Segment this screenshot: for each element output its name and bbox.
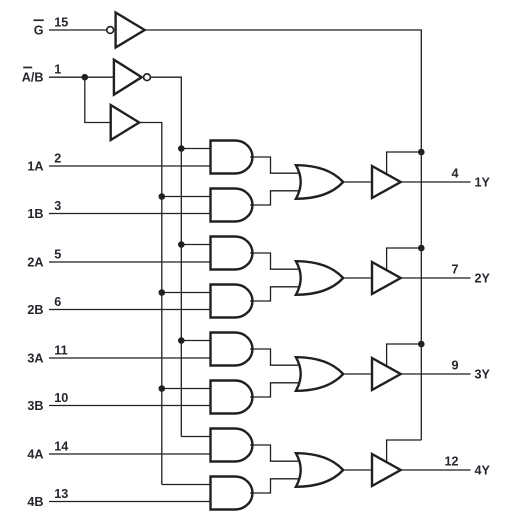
- inverter U1 (G enable, input bubble): [116, 13, 145, 48]
- overline for G: [34, 19, 44, 21]
- wire output 4Y: [401, 469, 471, 471]
- svg-text:14: 14: [54, 439, 68, 453]
- OR gate O1: [296, 165, 343, 199]
- svg-text:1A: 1A: [27, 160, 43, 174]
- AND gate A8 (4B path): [211, 477, 253, 510]
- svg-text:4A: 4A: [27, 448, 43, 462]
- wire AND1 output to OR1: [250, 157, 302, 173]
- svg-text:4B: 4B: [27, 495, 43, 509]
- junction enable bus group 1: [418, 149, 425, 156]
- svg-text:1: 1: [54, 63, 61, 77]
- overline for A: [23, 67, 32, 69]
- wire A/B input: [49, 76, 114, 78]
- wire input 4A: [49, 453, 213, 455]
- junction enable bus group 2: [418, 245, 425, 252]
- wire input 2A: [49, 261, 213, 263]
- svg-text:1B: 1B: [27, 207, 43, 221]
- svg-text:1Y: 1Y: [475, 176, 491, 190]
- wire G input: [49, 29, 106, 31]
- AND gate A6 (3B path): [211, 381, 253, 414]
- AND gate A2 (1B path): [211, 189, 253, 222]
- wire input 3B: [49, 405, 213, 407]
- wire buffered-select stub to AND8: [162, 484, 213, 486]
- wire input 3A: [49, 357, 213, 359]
- svg-text:4Y: 4Y: [475, 464, 491, 478]
- wire AND2 output to OR1: [250, 191, 302, 205]
- wire enable stub group 1: [387, 152, 422, 174]
- wire enable stub group 4: [387, 440, 422, 462]
- wire G inverter output to bus: [145, 30, 422, 440]
- svg-text:5: 5: [54, 247, 61, 261]
- wire output 3Y: [401, 373, 471, 375]
- wire inverted select vertical: [151, 77, 182, 436]
- wire input 1B: [49, 213, 213, 215]
- wire OR4 output to buffer Y4: [343, 469, 372, 471]
- wire AND7 output to OR4: [250, 445, 302, 461]
- OR gate O4: [296, 453, 343, 487]
- buffer Y2 (output): [372, 262, 401, 294]
- wire enable stub group 2: [387, 248, 422, 270]
- svg-text:3A: 3A: [27, 352, 43, 366]
- OR gate O2: [296, 261, 343, 295]
- svg-text:3: 3: [54, 199, 61, 213]
- junction inverted-select group 1: [178, 145, 185, 152]
- wire inverted-select stub to AND3: [181, 244, 212, 246]
- wire inverted-select stub to AND7: [181, 436, 212, 438]
- wire OR1 output to buffer Y1: [343, 181, 372, 183]
- svg-text:3Y: 3Y: [475, 368, 491, 382]
- svg-text:15: 15: [54, 15, 68, 29]
- buffer Y3 (output): [372, 358, 401, 390]
- svg-text:7: 7: [451, 262, 458, 276]
- wire input 2B: [49, 309, 213, 311]
- junction buffered-select group 3: [159, 385, 166, 392]
- inverter U2 (select, output bubble): [114, 60, 142, 95]
- junction enable bus group 3: [418, 341, 425, 348]
- wire buffered-select stub to AND6: [162, 388, 213, 390]
- svg-text:2B: 2B: [27, 303, 43, 317]
- wire A/B to buffer U3: [85, 77, 111, 122]
- AND gate A7 (4A path): [211, 429, 253, 462]
- buffer Y4 (output): [372, 454, 401, 486]
- junction buffered-select group 2: [159, 289, 166, 296]
- wire OR3 output to buffer Y3: [343, 373, 372, 375]
- svg-text:3B: 3B: [27, 399, 43, 413]
- wire OR2 output to buffer Y2: [343, 277, 372, 279]
- wire AND6 output to OR3: [250, 383, 302, 397]
- svg-text:4: 4: [451, 166, 458, 180]
- svg-text:A/B: A/B: [22, 71, 44, 85]
- AND gate A5 (3A path): [211, 333, 253, 366]
- wire buffered-select stub to AND2: [162, 196, 213, 198]
- wire output 2Y: [401, 277, 471, 279]
- svg-text:10: 10: [54, 391, 68, 405]
- svg-text:2A: 2A: [27, 256, 43, 270]
- wire AND4 output to OR2: [250, 287, 302, 301]
- junction buffered-select group 1: [159, 193, 166, 200]
- svg-text:9: 9: [451, 358, 458, 372]
- svg-text:6: 6: [54, 295, 61, 309]
- junction inverted-select group 2: [178, 241, 185, 248]
- wire output 1Y: [401, 181, 471, 183]
- buffer Y1 (output): [372, 166, 401, 198]
- AND gate A4 (2B path): [211, 285, 253, 318]
- wire buffered select vertical: [139, 123, 162, 485]
- wire inverted-select stub to AND5: [181, 340, 212, 342]
- svg-text:G: G: [34, 24, 44, 38]
- svg-text:13: 13: [54, 487, 68, 501]
- wire input 1A: [49, 165, 213, 167]
- svg-text:11: 11: [54, 343, 67, 357]
- wire AND5 output to OR3: [250, 349, 302, 365]
- wire inverted-select stub to AND1: [181, 148, 212, 150]
- OR gate O3: [296, 357, 343, 391]
- svg-text:12: 12: [444, 454, 458, 468]
- wire AND8 output to OR4: [250, 479, 302, 493]
- buffer U3 (select, non-inverting): [111, 105, 140, 140]
- junction inverted-select group 3: [178, 337, 185, 344]
- wire buffered-select stub to AND4: [162, 292, 213, 294]
- junction A/B split: [82, 74, 89, 81]
- AND gate A3 (2A path): [211, 237, 253, 270]
- svg-text:2Y: 2Y: [475, 272, 491, 286]
- wire input 4B: [49, 501, 213, 503]
- wire AND3 output to OR2: [250, 253, 302, 269]
- AND gate A1 (1A path): [211, 141, 253, 174]
- svg-text:2: 2: [54, 151, 61, 165]
- wire enable stub group 3: [387, 344, 422, 366]
